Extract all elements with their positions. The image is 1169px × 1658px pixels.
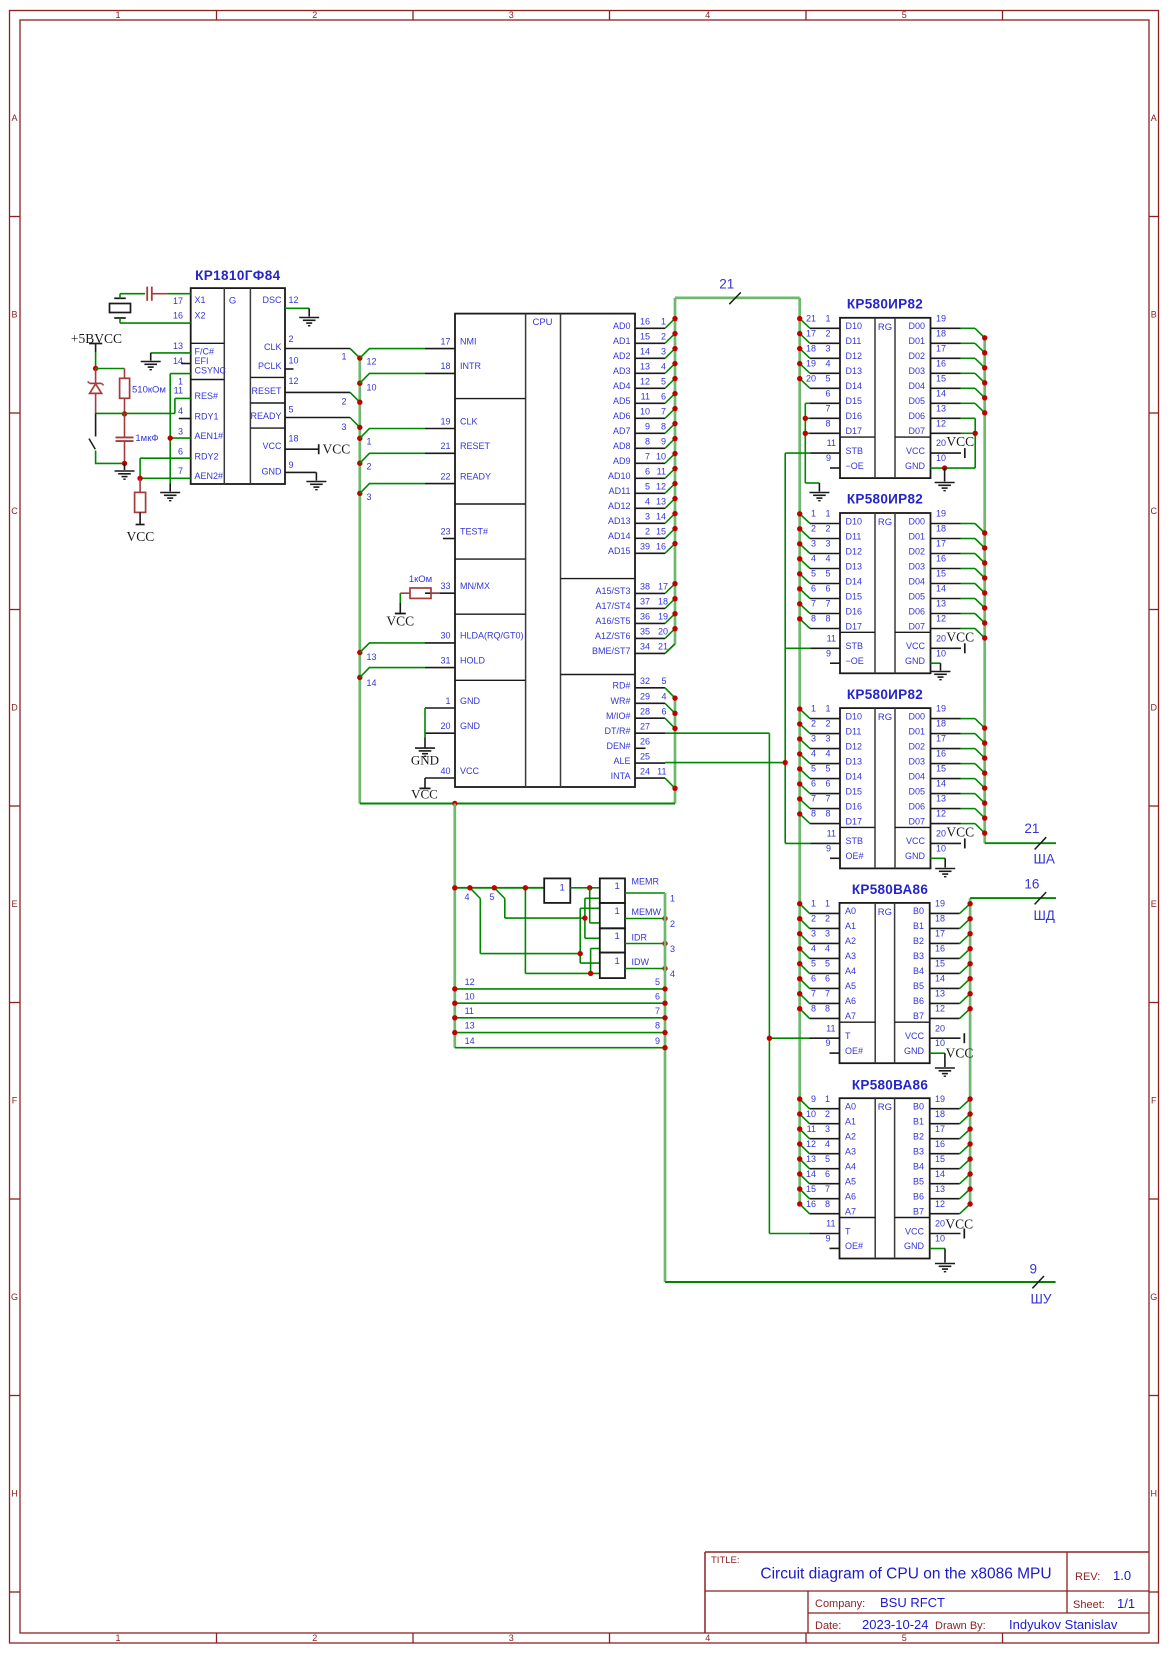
svg-text:CLK: CLK — [460, 416, 478, 426]
svg-text:E: E — [1151, 899, 1157, 909]
junction dots pass-through rows — [452, 986, 668, 1050]
wire CLK output to clock bus — [285, 349, 360, 359]
svg-text:A17/ST4: A17/ST4 — [595, 601, 630, 611]
svg-text:D07: D07 — [908, 816, 925, 826]
junction RD branch — [492, 885, 497, 890]
svg-text:1.0: 1.0 — [1113, 1568, 1131, 1583]
svg-text:5: 5 — [811, 764, 816, 774]
svg-text:A4: A4 — [845, 966, 856, 976]
junction IDR out — [662, 941, 667, 946]
svg-text:15: 15 — [935, 1154, 945, 1164]
svg-text:8: 8 — [825, 418, 830, 428]
CPU AD bus pins AD0-AD15 — [608, 317, 675, 557]
svg-text:D16: D16 — [846, 801, 863, 811]
title block — [705, 1552, 1149, 1633]
wire RESET output to clock bus — [285, 392, 360, 402]
svg-text:AD11: AD11 — [609, 486, 631, 496]
wire crystal top to capacitor to X1 — [120, 294, 145, 299]
svg-text:D11: D11 — [846, 726, 862, 736]
svg-text:6: 6 — [661, 706, 666, 716]
U1 right pin labels — [250, 295, 298, 476]
svg-text:VCC: VCC — [946, 1046, 974, 1061]
svg-text:16: 16 — [935, 1139, 945, 1149]
svg-text:Company:: Company: — [815, 1598, 865, 1610]
svg-text:DSC: DSC — [262, 295, 282, 305]
svg-text:ША: ША — [1034, 852, 1055, 867]
power VCC below R2 — [127, 525, 155, 545]
svg-text:D12: D12 — [846, 351, 863, 361]
wire CPU GND pins to ground — [424, 708, 426, 748]
svg-text:7: 7 — [825, 403, 830, 413]
svg-text:3: 3 — [825, 929, 830, 939]
wire WR to MEMW IDW inputs — [580, 908, 600, 963]
svg-text:IDR: IDR — [632, 932, 648, 942]
svg-text:3: 3 — [367, 492, 372, 502]
svg-text:16: 16 — [936, 749, 946, 759]
svg-text:RD#: RD# — [612, 681, 630, 691]
CPU status pins ST3-ST7 — [592, 582, 675, 657]
junction dots U7 inputs — [797, 1096, 802, 1206]
svg-text:20: 20 — [935, 1219, 945, 1229]
ground at U3 GND pin — [935, 468, 955, 491]
wire +5B to diode resistor junction — [95, 352, 97, 369]
svg-text:A5: A5 — [845, 1177, 856, 1187]
svg-text:D07: D07 — [908, 426, 925, 436]
svg-text:10: 10 — [465, 991, 475, 1001]
svg-text:4: 4 — [670, 969, 675, 979]
ground at U7 GND — [935, 1263, 955, 1265]
ground at U6 GND — [935, 1067, 955, 1069]
svg-text:GND: GND — [262, 466, 283, 476]
svg-text:EFI: EFI — [195, 356, 209, 366]
wire MEMR output to control bus — [625, 893, 675, 904]
svg-text:D10: D10 — [846, 711, 863, 721]
power VCC at CPU pin 40 — [411, 778, 438, 802]
svg-text:6: 6 — [811, 974, 816, 984]
unconnected stubs EFI RDY1 PCLK — [181, 363, 191, 365]
junction MEMW out — [662, 916, 667, 921]
svg-text:6: 6 — [825, 1169, 830, 1179]
svg-text:7: 7 — [811, 794, 816, 804]
U5 input wires from bus — [800, 709, 810, 824]
svg-text:AD6: AD6 — [613, 411, 631, 421]
svg-text:2: 2 — [289, 334, 294, 344]
svg-text:23: 23 — [440, 526, 450, 536]
svg-text:5: 5 — [645, 482, 650, 492]
wire gate feeder horizontal — [455, 887, 544, 889]
junction AEN2# pullup node — [137, 476, 142, 481]
junction dots U3 outputs — [982, 335, 987, 415]
svg-text:39: 39 — [640, 542, 650, 552]
switch SW1 — [89, 413, 96, 449]
svg-text:40: 40 — [440, 766, 450, 776]
wire CSYNC vertical to ground — [170, 374, 191, 492]
svg-text:1: 1 — [615, 906, 620, 917]
diode D1 zener — [88, 369, 104, 414]
svg-text:12: 12 — [936, 418, 946, 428]
ground at U4 GND — [931, 671, 951, 673]
svg-text:14: 14 — [935, 1169, 945, 1179]
wire buffer out to MEMW input — [590, 888, 600, 923]
svg-text:D06: D06 — [908, 606, 925, 616]
svg-text:10: 10 — [936, 843, 946, 853]
svg-text:16: 16 — [936, 358, 946, 368]
svg-text:3: 3 — [811, 539, 816, 549]
svg-text:RG: RG — [878, 907, 892, 918]
svg-text:3: 3 — [178, 426, 183, 436]
svg-text:12: 12 — [465, 977, 475, 987]
svg-text:18: 18 — [806, 343, 816, 353]
svg-text:A1: A1 — [845, 921, 856, 931]
svg-text:VCC: VCC — [262, 441, 282, 451]
junction MIO branch — [523, 885, 528, 890]
svg-text:HOLD: HOLD — [460, 655, 486, 665]
svg-text:GND: GND — [904, 1046, 925, 1056]
svg-text:8: 8 — [811, 1004, 816, 1014]
svg-text:VCC: VCC — [905, 1031, 925, 1041]
svg-text:7: 7 — [655, 1006, 660, 1016]
svg-text:29: 29 — [640, 692, 650, 702]
svg-text:OE#: OE# — [846, 851, 864, 861]
wire crystal bottom to X2 pin — [120, 318, 191, 323]
svg-text:16: 16 — [173, 310, 183, 320]
CPU control pins — [604, 676, 666, 781]
junction dots U4 inputs — [797, 511, 802, 621]
svg-text:7: 7 — [825, 1184, 830, 1194]
svg-text:4: 4 — [645, 497, 650, 507]
svg-text:14: 14 — [656, 512, 666, 522]
svg-text:D14: D14 — [846, 576, 863, 586]
svg-text:21: 21 — [440, 441, 450, 451]
junction WR vertical — [578, 951, 583, 956]
svg-text:8: 8 — [661, 422, 666, 432]
svg-text:12: 12 — [656, 482, 666, 492]
svg-text:D17: D17 — [846, 816, 863, 826]
svg-text:8: 8 — [645, 437, 650, 447]
svg-text:1: 1 — [670, 894, 675, 904]
svg-text:13: 13 — [936, 599, 946, 609]
U7 input wires from bus — [800, 1099, 810, 1214]
svg-text:5: 5 — [661, 676, 666, 686]
svg-text:B2: B2 — [913, 936, 924, 946]
wire RD# to control bus — [665, 688, 675, 698]
svg-text:H: H — [11, 1489, 18, 1499]
top bus horizontal to latches — [675, 297, 800, 300]
ground at DSC — [299, 317, 319, 319]
wire STB U3 — [785, 452, 810, 454]
ground below AEN pins — [160, 492, 180, 494]
svg-text:18: 18 — [935, 914, 945, 924]
svg-text:3: 3 — [825, 539, 830, 549]
wire RC node horizontal — [96, 398, 191, 413]
svg-text:9: 9 — [661, 437, 666, 447]
svg-text:5: 5 — [661, 377, 666, 387]
svg-text:8: 8 — [825, 1004, 830, 1014]
svg-text:20: 20 — [806, 373, 816, 383]
svg-text:1: 1 — [825, 704, 830, 714]
svg-text:2: 2 — [811, 719, 816, 729]
svg-text:RG: RG — [878, 1102, 892, 1113]
bottom control link horizontal — [360, 803, 675, 805]
junction buffer output — [587, 885, 592, 890]
junction ALE — [783, 760, 788, 765]
capacitor C2 1mkF — [116, 414, 159, 464]
svg-text:12: 12 — [936, 614, 946, 624]
svg-text:36: 36 — [640, 612, 650, 622]
svg-text:19: 19 — [936, 704, 946, 714]
wire T U7 — [769, 1233, 809, 1235]
wire bus to CPU INTR — [360, 373, 425, 383]
data bus vertical SHD — [969, 898, 972, 1204]
data bus exit SHD — [970, 876, 1056, 923]
junction AEN1# node — [168, 435, 173, 440]
svg-text:A5: A5 — [845, 981, 856, 991]
svg-text:15: 15 — [935, 959, 945, 969]
svg-text:INTR: INTR — [460, 361, 481, 371]
svg-text:CSYNC: CSYNC — [195, 366, 227, 376]
svg-text:6: 6 — [825, 584, 830, 594]
svg-text:B5: B5 — [913, 981, 924, 991]
wire ALE from CPU — [665, 762, 785, 764]
svg-text:−OE: −OE — [846, 461, 864, 471]
wire READY output to clock bus — [285, 418, 360, 428]
svg-text:T: T — [845, 1031, 851, 1041]
svg-text:14: 14 — [935, 974, 945, 984]
junction dots control bus — [672, 695, 677, 791]
svg-text:КР580ВА86: КР580ВА86 — [852, 1077, 929, 1092]
svg-text:DT/R#: DT/R# — [604, 726, 630, 736]
svg-text:37: 37 — [640, 597, 650, 607]
svg-text:9: 9 — [826, 648, 831, 658]
svg-text:AD7: AD7 — [613, 426, 631, 436]
svg-text:IDW: IDW — [632, 957, 650, 967]
svg-text:REV:: REV: — [1075, 1571, 1100, 1583]
bus entry RD branch — [489, 888, 584, 918]
svg-text:2023-10-24: 2023-10-24 — [862, 1617, 929, 1632]
clock signal bus vertical — [358, 358, 361, 803]
wire MEMW output — [625, 919, 675, 930]
svg-text:D17: D17 — [846, 621, 863, 631]
svg-text:A0: A0 — [845, 906, 856, 916]
svg-text:5: 5 — [825, 569, 830, 579]
svg-text:9: 9 — [826, 453, 831, 463]
svg-text:VCC: VCC — [905, 1226, 925, 1236]
svg-text:10: 10 — [656, 452, 666, 462]
wire MIO to IDR input — [591, 949, 600, 974]
svg-text:OE#: OE# — [845, 1046, 863, 1056]
U6 input wires from bus — [800, 904, 810, 1019]
wire clock GND pin to ground — [285, 472, 316, 480]
svg-text:TEST#: TEST# — [460, 526, 488, 536]
svg-text:20: 20 — [936, 829, 946, 839]
svg-text:12: 12 — [289, 376, 299, 386]
svg-text:D07: D07 — [908, 621, 925, 631]
svg-text:D05: D05 — [908, 786, 925, 796]
svg-text:18: 18 — [936, 719, 946, 729]
svg-text:AD14: AD14 — [608, 531, 631, 541]
svg-text:STB: STB — [846, 446, 864, 456]
svg-text:B: B — [11, 310, 17, 320]
svg-text:RDY1: RDY1 — [195, 411, 219, 421]
svg-text:6: 6 — [825, 974, 830, 984]
svg-text:21: 21 — [806, 313, 816, 323]
junction dots U3 grounded inputs — [803, 416, 808, 436]
svg-text:12: 12 — [367, 357, 377, 367]
transceiver U6 KP580VA86 data low — [810, 882, 974, 1063]
svg-text:AD13: AD13 — [608, 516, 631, 526]
svg-text:READY: READY — [250, 411, 281, 421]
svg-text:1: 1 — [811, 899, 816, 909]
svg-text:2: 2 — [367, 462, 372, 472]
svg-text:AD8: AD8 — [613, 441, 631, 451]
svg-text:18: 18 — [936, 524, 946, 534]
junction ground node — [122, 461, 127, 466]
svg-text:1: 1 — [615, 956, 620, 967]
svg-text:C: C — [11, 506, 18, 516]
svg-text:1: 1 — [115, 1633, 120, 1643]
svg-text:A1: A1 — [845, 1117, 856, 1127]
svg-text:11: 11 — [827, 438, 836, 448]
svg-text:ALE: ALE — [613, 756, 630, 766]
svg-text:10: 10 — [935, 1234, 945, 1244]
wire CPU HOLD to clock bus — [360, 668, 425, 678]
svg-text:B6: B6 — [913, 1192, 924, 1202]
gate U12 IDW — [600, 953, 650, 979]
bus entry WR branch — [464, 888, 580, 954]
svg-text:31: 31 — [440, 655, 450, 665]
bus entry MIO branch — [525, 888, 599, 974]
svg-text:24: 24 — [640, 766, 650, 776]
svg-text:A3: A3 — [845, 1147, 856, 1157]
svg-text:1: 1 — [560, 882, 565, 893]
svg-text:D11: D11 — [846, 336, 862, 346]
svg-text:7: 7 — [825, 989, 830, 999]
svg-text:4: 4 — [825, 749, 830, 759]
svg-text:5: 5 — [811, 959, 816, 969]
svg-text:D13: D13 — [846, 561, 863, 571]
svg-text:B0: B0 — [913, 906, 924, 916]
wire buffer output — [570, 887, 600, 889]
svg-text:AD0: AD0 — [613, 321, 631, 331]
svg-text:RDY2: RDY2 — [195, 452, 219, 462]
svg-text:AD1: AD1 — [613, 336, 631, 346]
svg-text:A3: A3 — [845, 951, 856, 961]
CPU AD status bus vertical — [674, 298, 677, 644]
svg-text:CPU: CPU — [532, 317, 552, 328]
svg-text:14: 14 — [640, 347, 650, 357]
svg-text:BSU RFCT: BSU RFCT — [880, 1595, 945, 1610]
svg-text:1кОм: 1кОм — [409, 574, 432, 585]
svg-text:A1Z/ST6: A1Z/ST6 — [595, 631, 631, 641]
svg-text:25: 25 — [640, 751, 650, 761]
svg-text:2: 2 — [645, 527, 650, 537]
svg-text:10: 10 — [367, 383, 377, 393]
svg-text:A: A — [11, 113, 17, 123]
junction RD vertical — [582, 915, 587, 920]
junction dots U5 outputs — [982, 725, 987, 835]
U4 output wires to address bus — [961, 524, 985, 639]
svg-text:33: 33 — [440, 581, 450, 591]
svg-text:WR#: WR# — [611, 696, 631, 706]
svg-text:10: 10 — [935, 1038, 945, 1048]
svg-text:2: 2 — [825, 328, 830, 338]
svg-text:1: 1 — [825, 1094, 830, 1104]
svg-text:AD5: AD5 — [613, 396, 631, 406]
svg-text:D: D — [11, 703, 18, 713]
wire U6 GND to ground — [930, 1053, 945, 1067]
capacitor C1 series — [147, 287, 168, 301]
svg-text:13: 13 — [465, 1021, 475, 1031]
svg-text:13: 13 — [173, 341, 183, 351]
U7 output wires to data bus — [960, 1099, 970, 1214]
svg-text:7: 7 — [825, 599, 830, 609]
svg-text:3: 3 — [670, 944, 675, 954]
svg-text:D03: D03 — [908, 756, 925, 766]
svg-text:AD3: AD3 — [613, 366, 631, 376]
svg-text:12: 12 — [640, 377, 650, 387]
svg-text:10: 10 — [936, 648, 946, 658]
svg-text:1: 1 — [825, 899, 830, 909]
svg-text:4: 4 — [661, 692, 666, 702]
svg-text:MEMR: MEMR — [632, 877, 660, 887]
svg-text:VCC: VCC — [460, 766, 480, 776]
svg-text:16: 16 — [640, 317, 650, 327]
svg-text:19: 19 — [935, 899, 945, 909]
junction dots U3 inputs — [797, 316, 802, 381]
svg-text:11: 11 — [657, 766, 666, 776]
junction dots U6 outputs — [967, 901, 972, 1011]
wire capacitor to X1 pin — [168, 293, 191, 295]
svg-text:16: 16 — [936, 554, 946, 564]
wire U5 GND pin to ground — [931, 858, 946, 867]
svg-text:3: 3 — [825, 1124, 830, 1134]
svg-text:G: G — [1150, 1292, 1157, 1302]
svg-text:GND: GND — [905, 656, 926, 666]
junction IDW out — [662, 966, 667, 971]
svg-text:15: 15 — [806, 1184, 816, 1194]
svg-text:6: 6 — [825, 779, 830, 789]
svg-text:15: 15 — [936, 569, 946, 579]
svg-text:D: D — [1151, 703, 1158, 713]
svg-text:D10: D10 — [846, 516, 863, 526]
svg-text:3: 3 — [825, 734, 830, 744]
gate U11 IDR — [600, 928, 648, 952]
svg-text:34: 34 — [640, 642, 650, 652]
svg-text:11: 11 — [174, 386, 183, 396]
svg-text:1: 1 — [445, 696, 450, 706]
svg-text:RESET: RESET — [460, 441, 491, 451]
svg-text:A0: A0 — [845, 1102, 856, 1112]
svg-text:21: 21 — [1024, 821, 1039, 836]
svg-text:11: 11 — [827, 829, 836, 839]
wire DT/R# from CPU — [665, 733, 769, 1233]
svg-text:21: 21 — [658, 642, 668, 652]
svg-text:6: 6 — [655, 991, 660, 1001]
CPU U2 body — [455, 314, 635, 787]
resistor R3 1kOm at MN/MX — [400, 574, 440, 598]
svg-text:AEN1#: AEN1# — [195, 431, 224, 441]
svg-text:8: 8 — [825, 809, 830, 819]
svg-text:A15/ST3: A15/ST3 — [595, 586, 630, 596]
svg-text:6: 6 — [178, 446, 183, 456]
svg-text:AD10: AD10 — [608, 471, 631, 481]
svg-text:VCC: VCC — [946, 434, 974, 449]
ground at clock GND — [306, 481, 326, 483]
wire RD to MEMR IDR inputs — [585, 898, 600, 938]
svg-text:CLK: CLK — [264, 342, 282, 352]
svg-text:17: 17 — [936, 343, 946, 353]
svg-text:1: 1 — [661, 317, 666, 327]
